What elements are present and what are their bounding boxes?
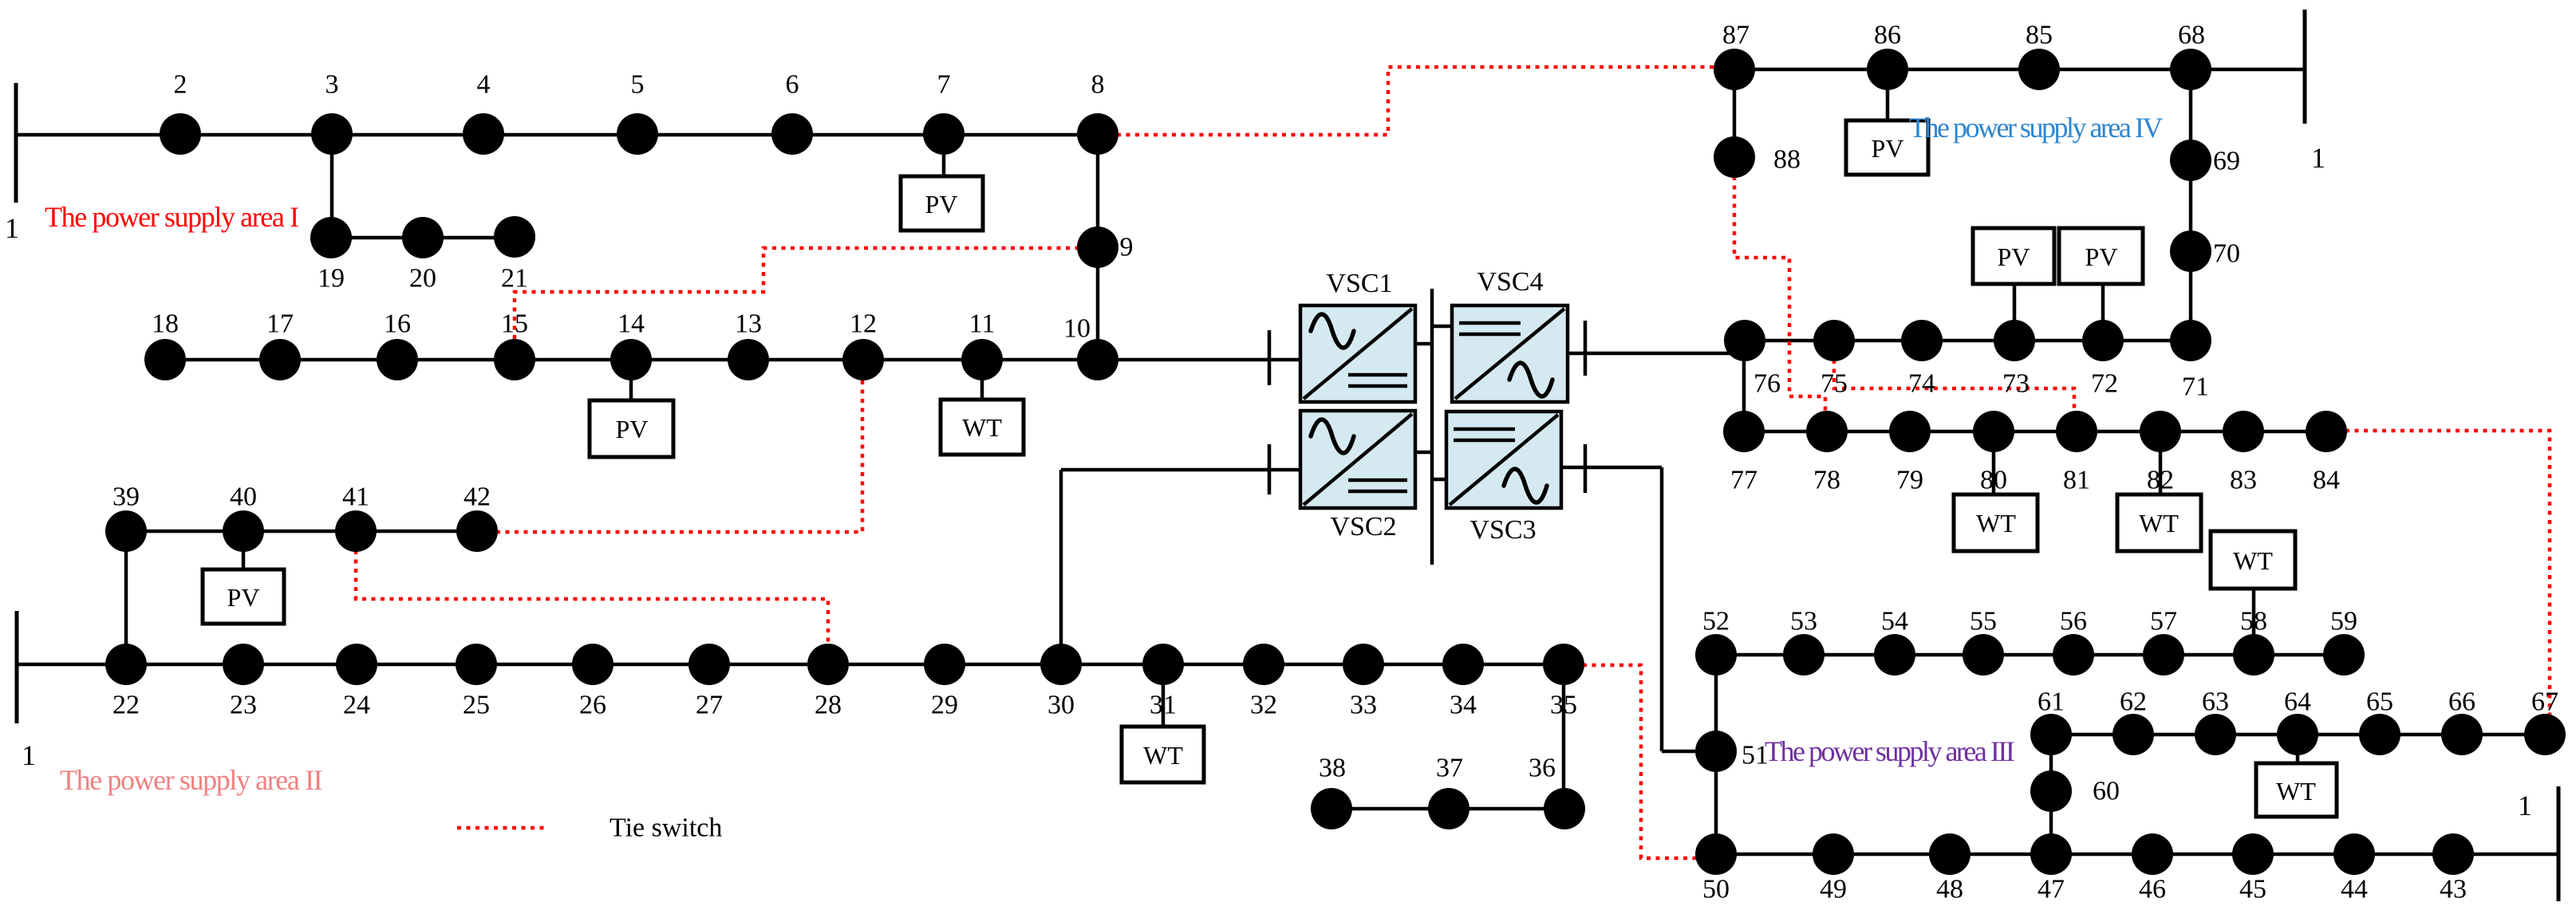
svg-text:24: 24 bbox=[343, 691, 370, 720]
svg-text:29: 29 bbox=[931, 691, 958, 720]
node 16 bbox=[377, 339, 418, 380]
node 8 bbox=[1077, 113, 1118, 155]
wire riser to VSC2 left bbox=[1061, 468, 1300, 472]
svg-text:45: 45 bbox=[2239, 875, 2266, 904]
svg-text:7: 7 bbox=[937, 70, 951, 100]
node 38 bbox=[1311, 788, 1352, 829]
node 36 bbox=[1544, 788, 1585, 829]
node 46 bbox=[2132, 833, 2173, 875]
wire node 8 to node 10 via node 9 bbox=[1096, 134, 1100, 360]
svg-text:PV: PV bbox=[227, 583, 260, 612]
wire nodes 52-59 bbox=[1716, 653, 2344, 657]
tie switch node 41 to node 28 bbox=[356, 550, 828, 645]
svg-text:81: 81 bbox=[2063, 466, 2090, 495]
node 62 bbox=[2112, 714, 2154, 755]
node 72 bbox=[2082, 320, 2124, 361]
node 6 bbox=[771, 113, 813, 155]
svg-text:86: 86 bbox=[1874, 21, 1901, 50]
wire DC bus to VSC3 bbox=[1432, 478, 1446, 482]
WT unit at node 80 bbox=[1954, 494, 2038, 551]
node 25 bbox=[456, 644, 497, 685]
svg-text:66: 66 bbox=[2448, 687, 2475, 717]
svg-text:26: 26 bbox=[579, 691, 606, 720]
node 45 bbox=[2232, 833, 2274, 875]
svg-text:88: 88 bbox=[1773, 145, 1801, 175]
svg-text:PV: PV bbox=[925, 190, 958, 219]
wire node 82 to WT stem bbox=[2159, 451, 2163, 496]
wire node 68 to node 71 bbox=[2189, 69, 2193, 341]
svg-text:18: 18 bbox=[152, 309, 179, 339]
PV unit at node 40 bbox=[203, 569, 284, 624]
svg-text:80: 80 bbox=[1980, 466, 2007, 495]
svg-text:68: 68 bbox=[2178, 21, 2205, 50]
svg-text:The power supply area I: The power supply area I bbox=[45, 201, 298, 233]
node 19 bbox=[310, 217, 352, 258]
PV unit at node 73 bbox=[1973, 228, 2054, 284]
svg-text:WT: WT bbox=[962, 413, 1002, 442]
node 61 bbox=[2030, 714, 2072, 755]
svg-text:1: 1 bbox=[5, 212, 19, 244]
node 63 bbox=[2195, 714, 2236, 755]
svg-text:9: 9 bbox=[1120, 233, 1134, 262]
tie switch node 88 to node 78 bbox=[1734, 176, 1825, 412]
svg-text:8: 8 bbox=[1091, 70, 1105, 100]
wire node 35 to node 36 bbox=[1562, 664, 1566, 809]
svg-text:23: 23 bbox=[230, 691, 257, 720]
node 84 bbox=[2306, 411, 2347, 452]
svg-text:1: 1 bbox=[2518, 790, 2532, 821]
wire node 64 to WT stem bbox=[2296, 754, 2300, 765]
svg-text:1: 1 bbox=[2311, 142, 2326, 174]
svg-text:27: 27 bbox=[696, 691, 723, 720]
wire VSC1 left tick bbox=[1268, 330, 1272, 385]
wire VSC2 left tick bbox=[1268, 444, 1272, 494]
PV unit at node 72 bbox=[2059, 228, 2143, 284]
node 77 bbox=[1723, 411, 1765, 452]
tie switch node 75 to node 81 bbox=[1834, 360, 2074, 412]
svg-text:VSC4: VSC4 bbox=[1477, 267, 1543, 297]
wire nodes 87-68 to bus4 bbox=[1734, 68, 2305, 72]
node 3 bbox=[311, 113, 353, 155]
node 80 bbox=[1973, 411, 2014, 452]
wire node 76 to node 77 bbox=[1742, 341, 1746, 431]
svg-text:50: 50 bbox=[1702, 875, 1730, 904]
svg-text:WT: WT bbox=[2233, 546, 2273, 575]
node 4 bbox=[463, 113, 504, 155]
svg-text:77: 77 bbox=[1730, 466, 1757, 495]
node 85 bbox=[2018, 49, 2060, 90]
node 82 bbox=[2140, 411, 2181, 452]
svg-text:49: 49 bbox=[1820, 875, 1847, 904]
node 12 bbox=[842, 339, 884, 380]
node 55 bbox=[1963, 634, 2004, 676]
node 81 bbox=[2056, 411, 2097, 452]
svg-text:39: 39 bbox=[112, 483, 140, 512]
svg-text:83: 83 bbox=[2230, 466, 2257, 495]
node 11 bbox=[961, 339, 1003, 380]
wire node 73 to PV stem bbox=[2013, 282, 2017, 321]
node 33 bbox=[1343, 644, 1384, 685]
svg-text:69: 69 bbox=[2213, 147, 2240, 176]
wire nodes 76-71 bbox=[1745, 339, 2191, 343]
svg-text:38: 38 bbox=[1319, 754, 1346, 783]
svg-text:78: 78 bbox=[1813, 466, 1840, 495]
node 20 bbox=[402, 217, 444, 258]
node 41 bbox=[335, 510, 377, 552]
tie switch node 42 to node 12 bbox=[496, 379, 862, 532]
node 51 bbox=[1695, 731, 1737, 772]
node 26 bbox=[572, 644, 613, 685]
wire node 39 to node 22 bbox=[124, 531, 128, 664]
PV unit at node 7 bbox=[901, 176, 983, 230]
wire nodes 18-10 to VSC1 bbox=[165, 358, 1300, 362]
svg-text:82: 82 bbox=[2147, 466, 2174, 495]
svg-text:46: 46 bbox=[2139, 875, 2166, 904]
svg-text:21: 21 bbox=[501, 264, 528, 293]
tie switch node 84 to node 67 bbox=[2345, 431, 2550, 715]
node 71 bbox=[2170, 320, 2211, 361]
svg-text:6: 6 bbox=[786, 70, 799, 100]
svg-text:32: 32 bbox=[1250, 691, 1277, 720]
wire corner to node 51 bbox=[1662, 750, 1716, 754]
svg-text:WT: WT bbox=[1976, 509, 2016, 538]
svg-text:WT: WT bbox=[2139, 509, 2179, 538]
svg-text:13: 13 bbox=[735, 309, 762, 339]
svg-text:52: 52 bbox=[1702, 607, 1730, 636]
node 34 bbox=[1442, 644, 1484, 685]
node 29 bbox=[924, 644, 965, 685]
wire VSC3 right tick bbox=[1584, 444, 1588, 493]
svg-text:58: 58 bbox=[2240, 607, 2267, 636]
node 87 bbox=[1714, 49, 1755, 90]
wire node 14 to PV stem bbox=[629, 379, 633, 402]
node 24 bbox=[336, 644, 377, 685]
node 44 bbox=[2333, 833, 2375, 875]
op-amp-style converter VSC4 bbox=[1452, 267, 1568, 402]
svg-text:17: 17 bbox=[266, 309, 294, 339]
node 14 bbox=[610, 339, 652, 380]
node 30 bbox=[1040, 644, 1082, 685]
node 64 bbox=[2277, 714, 2318, 755]
bus bar source 1 area IV bbox=[2303, 10, 2307, 124]
node 67 bbox=[2524, 714, 2566, 755]
node 54 bbox=[1874, 634, 1915, 676]
node 18 bbox=[144, 339, 186, 380]
wire corner down to node 51 level bbox=[1660, 467, 1664, 751]
wire DC bus vertical bbox=[1430, 289, 1434, 565]
wire node 31 to WT stem bbox=[1162, 683, 1166, 728]
wire nodes 61-60-47 bbox=[2049, 735, 2053, 854]
node 65 bbox=[2359, 714, 2400, 755]
node 5 bbox=[617, 113, 658, 155]
wire nodes 52-51-50 bbox=[1714, 655, 1718, 854]
svg-text:42: 42 bbox=[464, 483, 491, 512]
svg-text:VSC3: VSC3 bbox=[1469, 515, 1536, 545]
svg-text:19: 19 bbox=[318, 264, 345, 293]
svg-text:3: 3 bbox=[325, 70, 339, 100]
op-amp-style converter VSC1 bbox=[1300, 269, 1415, 402]
node 37 bbox=[1428, 788, 1469, 829]
wire VSC4 to node 76 bbox=[1568, 352, 1745, 356]
WT unit at node 58 bbox=[2211, 531, 2295, 589]
WT unit at node 82 bbox=[2117, 494, 2201, 551]
node 47 bbox=[2030, 833, 2072, 875]
svg-text:35: 35 bbox=[1550, 691, 1577, 720]
node 76 bbox=[1724, 320, 1765, 361]
svg-text:4: 4 bbox=[477, 70, 491, 100]
node 79 bbox=[1889, 411, 1931, 452]
wire node 50 to bus3 (feeder 50-43) bbox=[1716, 853, 2558, 857]
node 83 bbox=[2223, 411, 2264, 452]
svg-text:71: 71 bbox=[2182, 372, 2209, 402]
svg-text:74: 74 bbox=[1908, 369, 1935, 399]
svg-text:WT: WT bbox=[1143, 741, 1183, 770]
node 35 bbox=[1543, 644, 1584, 685]
wire node 30 riser to VSC2 bbox=[1059, 470, 1063, 664]
node 21 bbox=[494, 216, 535, 258]
svg-text:2: 2 bbox=[174, 70, 187, 100]
svg-text:59: 59 bbox=[2330, 607, 2357, 636]
wire nodes 61-67 bbox=[2051, 733, 2545, 737]
node 88 bbox=[1714, 136, 1755, 178]
node 40 bbox=[223, 510, 264, 552]
svg-text:PV: PV bbox=[1998, 242, 2030, 271]
svg-text:33: 33 bbox=[1350, 691, 1377, 720]
svg-text:VSC1: VSC1 bbox=[1326, 269, 1392, 298]
node 59 bbox=[2323, 634, 2365, 676]
svg-text:79: 79 bbox=[1896, 466, 1923, 495]
bus bar source 1 area I bbox=[14, 83, 18, 203]
svg-text:5: 5 bbox=[631, 70, 645, 100]
svg-text:60: 60 bbox=[2093, 777, 2120, 806]
node 42 bbox=[456, 510, 498, 552]
svg-text:34: 34 bbox=[1450, 691, 1477, 720]
svg-text:48: 48 bbox=[1936, 875, 1963, 904]
wire node 87 to node 88 bbox=[1733, 69, 1737, 157]
svg-text:The power supply area III: The power supply area III bbox=[1765, 735, 2014, 767]
svg-text:Tie switch: Tie switch bbox=[609, 813, 722, 843]
node 53 bbox=[1783, 634, 1825, 676]
node 48 bbox=[1929, 833, 1970, 875]
svg-text:1: 1 bbox=[22, 739, 36, 771]
wire node 7 to PV stem bbox=[942, 153, 946, 178]
svg-text:36: 36 bbox=[1529, 754, 1556, 783]
svg-text:30: 30 bbox=[1047, 691, 1075, 720]
svg-text:75: 75 bbox=[1821, 369, 1848, 399]
wire bus2 to node 35 (feeder 22-35) bbox=[17, 663, 1564, 667]
wire node 40 to PV stem bbox=[242, 550, 246, 571]
svg-text:25: 25 bbox=[463, 691, 490, 720]
tie switch node 8 to node 87 bbox=[1117, 67, 1715, 135]
wire VSC1 to DC bus bbox=[1415, 342, 1432, 346]
svg-text:The power supply area IV: The power supply area IV bbox=[1909, 112, 2163, 144]
wire node 11 to WT stem bbox=[980, 379, 984, 401]
tie switch legend dashed line bbox=[457, 826, 549, 830]
svg-text:85: 85 bbox=[2026, 21, 2053, 50]
wire VSC4 right tick bbox=[1584, 321, 1588, 376]
node 74 bbox=[1901, 320, 1943, 361]
wire nodes 38-36 bbox=[1331, 807, 1564, 811]
svg-text:PV: PV bbox=[2085, 242, 2118, 271]
node 7 bbox=[923, 113, 965, 155]
svg-text:PV: PV bbox=[616, 415, 649, 443]
wire node 3 to node 19 bbox=[330, 134, 334, 238]
node 43 bbox=[2432, 833, 2474, 875]
node 50 bbox=[1695, 833, 1737, 875]
svg-text:84: 84 bbox=[2313, 466, 2340, 495]
wire nodes 39-42 bbox=[126, 530, 477, 534]
node 9 bbox=[1077, 227, 1118, 268]
wire node 86 to PV stem bbox=[1886, 89, 1890, 122]
wire VSC2 to DC bus bbox=[1415, 451, 1432, 455]
wire bus1 to node 8 (feeder 1-8) bbox=[16, 133, 1098, 137]
svg-text:61: 61 bbox=[2038, 687, 2065, 717]
svg-text:20: 20 bbox=[409, 264, 436, 293]
svg-text:54: 54 bbox=[1881, 607, 1908, 636]
svg-text:10: 10 bbox=[1063, 314, 1091, 344]
wire node 80 to WT stem bbox=[1992, 451, 1996, 496]
svg-text:14: 14 bbox=[617, 309, 645, 339]
node 70 bbox=[2170, 230, 2211, 272]
svg-text:11: 11 bbox=[969, 309, 996, 339]
node 2 bbox=[160, 113, 201, 155]
node 10 bbox=[1077, 339, 1118, 380]
WT unit at node 64 bbox=[2256, 763, 2337, 817]
svg-text:53: 53 bbox=[1790, 607, 1817, 636]
node 49 bbox=[1813, 833, 1854, 875]
node 31 bbox=[1142, 644, 1184, 685]
wire WT to node 58 stem bbox=[2252, 587, 2256, 636]
svg-text:70: 70 bbox=[2213, 239, 2240, 269]
svg-text:41: 41 bbox=[342, 483, 369, 512]
node 28 bbox=[807, 644, 849, 685]
node 60 bbox=[2030, 770, 2072, 812]
node 39 bbox=[105, 510, 147, 552]
node 66 bbox=[2441, 714, 2483, 755]
tie switch node 15 to node 9 bbox=[515, 248, 1079, 339]
svg-text:65: 65 bbox=[2366, 687, 2393, 717]
svg-text:12: 12 bbox=[850, 309, 877, 339]
node 22 bbox=[105, 644, 147, 685]
node 68 bbox=[2170, 49, 2211, 90]
svg-text:44: 44 bbox=[2341, 875, 2368, 904]
WT unit at node 31 bbox=[1122, 727, 1204, 782]
svg-text:37: 37 bbox=[1436, 754, 1463, 783]
svg-text:22: 22 bbox=[112, 691, 140, 720]
svg-text:WT: WT bbox=[2276, 777, 2316, 806]
svg-text:55: 55 bbox=[1970, 607, 1997, 636]
svg-text:56: 56 bbox=[2060, 607, 2087, 636]
svg-text:28: 28 bbox=[815, 691, 842, 720]
node 52 bbox=[1695, 634, 1737, 676]
svg-text:47: 47 bbox=[2038, 875, 2065, 904]
node 27 bbox=[688, 644, 730, 685]
PV unit at node 14 bbox=[590, 400, 673, 457]
svg-text:72: 72 bbox=[2091, 369, 2118, 399]
svg-text:87: 87 bbox=[1722, 21, 1750, 50]
svg-text:57: 57 bbox=[2150, 607, 2177, 636]
node 17 bbox=[259, 339, 301, 380]
wire DC bus to VSC4 bbox=[1432, 325, 1452, 329]
svg-text:15: 15 bbox=[501, 309, 528, 339]
svg-text:73: 73 bbox=[2002, 369, 2030, 399]
svg-text:76: 76 bbox=[1753, 369, 1781, 399]
svg-text:16: 16 bbox=[384, 309, 411, 339]
node 58 bbox=[2233, 634, 2274, 676]
node 23 bbox=[223, 644, 264, 685]
node 78 bbox=[1806, 411, 1848, 452]
bus bar source 1 area III bbox=[2557, 786, 2561, 901]
WT unit at node 11 bbox=[941, 400, 1024, 455]
node 75 bbox=[1813, 320, 1855, 361]
bus bar source 1 area II bbox=[15, 611, 19, 723]
node 57 bbox=[2143, 634, 2184, 676]
PV unit at node 86 bbox=[1846, 120, 1928, 175]
node 73 bbox=[1994, 320, 2035, 361]
op-amp-style converter VSC3 bbox=[1446, 412, 1561, 545]
node 13 bbox=[728, 339, 769, 380]
node 32 bbox=[1243, 644, 1284, 685]
node 86 bbox=[1867, 49, 1908, 90]
wire nodes 77-84 bbox=[1744, 430, 2326, 434]
node 69 bbox=[2170, 140, 2211, 181]
svg-text:PV: PV bbox=[1872, 134, 1904, 163]
svg-text:31: 31 bbox=[1150, 691, 1177, 720]
svg-text:40: 40 bbox=[230, 483, 257, 512]
wire node 72 to PV stem bbox=[2101, 282, 2105, 321]
tie switch node 35 to node 50 bbox=[1583, 665, 1697, 858]
svg-text:67: 67 bbox=[2531, 687, 2558, 717]
svg-text:The power supply area II: The power supply area II bbox=[60, 764, 322, 796]
svg-text:64: 64 bbox=[2284, 687, 2311, 717]
node 56 bbox=[2053, 634, 2094, 676]
svg-text:62: 62 bbox=[2120, 687, 2147, 717]
svg-text:43: 43 bbox=[2440, 875, 2467, 904]
node 15 bbox=[494, 339, 535, 380]
wire nodes 19-21 bbox=[331, 236, 515, 240]
wire VSC3 to corner bbox=[1561, 466, 1662, 470]
svg-text:VSC2: VSC2 bbox=[1330, 512, 1396, 542]
op-amp-style converter VSC2 bbox=[1300, 411, 1415, 542]
svg-text:63: 63 bbox=[2202, 687, 2229, 717]
